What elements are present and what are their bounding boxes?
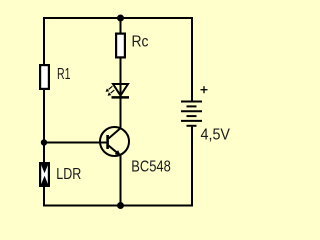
wire: middle branch collector side (top junction through Rc and LED to transistor) (120, 18, 122, 128)
base bar (106, 135, 109, 149)
LDR (40, 163, 49, 186)
battery BT1 4,5V (181, 102, 202, 126)
node: bottom junction (117, 202, 124, 209)
emitter diagonal with arrow (109, 146, 120, 155)
resistor Rc (116, 34, 125, 58)
collector diagonal (109, 128, 122, 139)
LED D1 (106, 84, 129, 97)
battery plus sign (201, 86, 208, 93)
node: base junction on left rail (41, 139, 47, 145)
node: top junction (117, 15, 124, 22)
svg-text:R1: R1 (57, 66, 71, 83)
wire: top rail + upper left/right rails (44, 18, 192, 101)
wire: bottom rail + lower left/right rails (44, 127, 192, 206)
svg-text:BC548: BC548 (131, 159, 171, 176)
LED arrow 1 (109, 86, 113, 89)
wire: emitter to bottom rail (120, 155, 122, 206)
transistor Q1 BC548 (100, 127, 129, 156)
svg-text:LDR: LDR (56, 166, 81, 183)
LED arrow 2 (111, 90, 115, 93)
resistor R1 (40, 65, 49, 89)
wire: left rail between R1 and LDR (43, 90, 45, 162)
svg-text:4,5V: 4,5V (201, 126, 231, 143)
wire: base wire from left rail to transistor (44, 142, 107, 144)
svg-text:Rc: Rc (132, 34, 149, 51)
